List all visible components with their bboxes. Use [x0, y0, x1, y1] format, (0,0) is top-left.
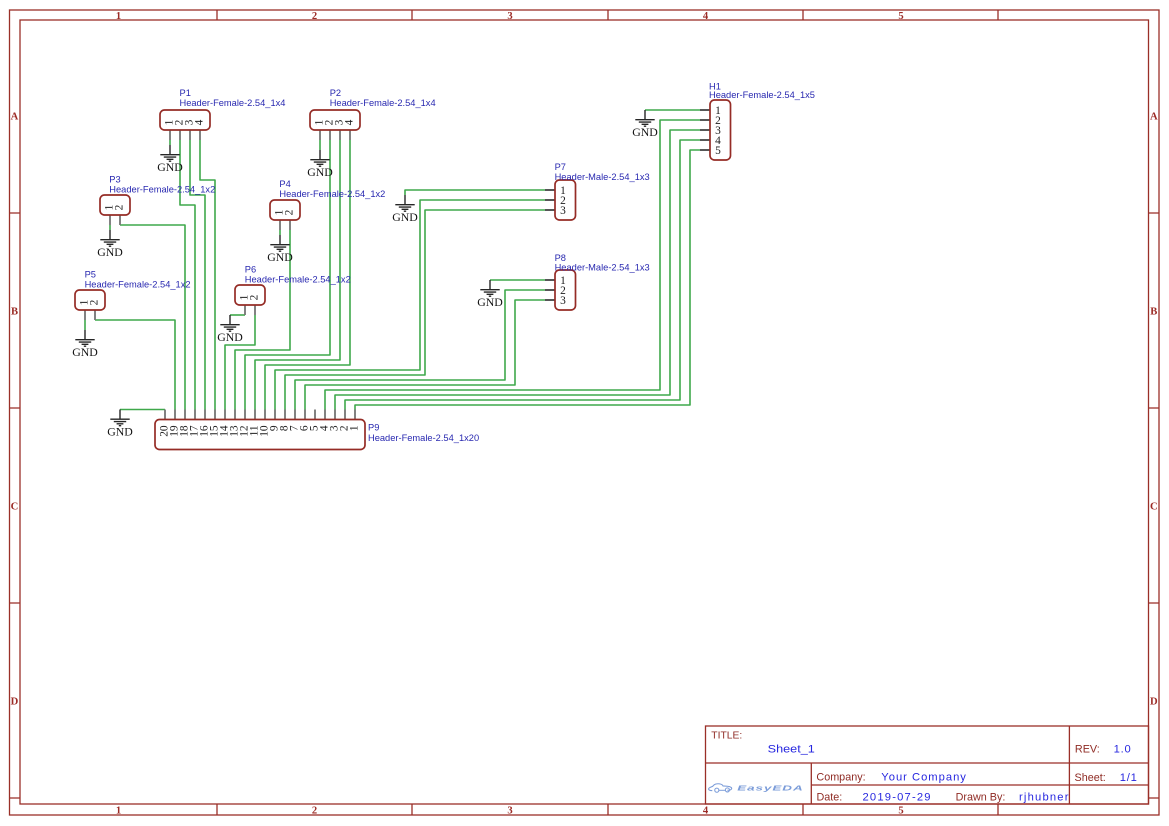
- frame row letters left: [11, 112, 19, 708]
- svg-text:4: 4: [194, 119, 206, 125]
- svg-text:2: 2: [312, 11, 317, 22]
- P5 pin numbers: [79, 299, 101, 305]
- svg-text:1.0: 1.0: [1114, 743, 1132, 755]
- wire P8 pin2 to P9 pin7: [295, 290, 545, 410]
- svg-text:GND: GND: [72, 347, 98, 359]
- title block REV: [1075, 743, 1132, 755]
- svg-text:GND: GND: [217, 332, 243, 344]
- svg-text:P7: P7: [555, 162, 566, 172]
- P6 pin stubs: [245, 305, 255, 315]
- ground GND at P1 pin1: [157, 145, 183, 174]
- connector P5 Header-Female-2.54_1x2: [75, 269, 191, 320]
- svg-text:Header-Female-2.54_1x20: Header-Female-2.54_1x20: [368, 433, 479, 443]
- P9 pin numbers: [159, 425, 361, 437]
- svg-text:3: 3: [560, 295, 566, 307]
- svg-text:5: 5: [898, 11, 903, 22]
- svg-text:1/1: 1/1: [1120, 772, 1138, 784]
- wire P2 pin3 to P9 pin11: [255, 140, 340, 410]
- svg-text:P6: P6: [245, 264, 256, 274]
- connector P1 Header-Female-2.54_1x4: [160, 88, 285, 140]
- svg-text:P8: P8: [555, 253, 566, 263]
- svg-text:D: D: [1150, 697, 1158, 708]
- P5 body: [75, 290, 105, 310]
- P4 pin numbers: [274, 209, 296, 215]
- svg-text:2: 2: [249, 294, 261, 300]
- P6 pin numbers: [239, 294, 261, 300]
- svg-text:A: A: [1150, 112, 1158, 123]
- svg-text:5: 5: [715, 145, 721, 157]
- connector P6 Header-Female-2.54_1x2: [235, 264, 351, 315]
- frame row letters right: [1150, 112, 1158, 708]
- P7 body: [555, 180, 576, 220]
- svg-text:Header-Female-2.54_1x4: Header-Female-2.54_1x4: [180, 98, 286, 108]
- connector P7 Header-Male-2.54_1x3: [545, 162, 650, 220]
- svg-text:P2: P2: [330, 88, 341, 98]
- H1 pin stubs: [700, 110, 710, 150]
- P4 pin stubs: [280, 220, 290, 230]
- wire P3 pin1 to GND: [109, 225, 111, 230]
- svg-text:2: 2: [114, 204, 126, 210]
- wire P5 pin1 to GND: [84, 320, 86, 330]
- wire P6 pin1 to GND: [230, 314, 245, 316]
- title block: [706, 726, 1149, 804]
- frame row ticks: [10, 213, 1160, 798]
- svg-text:Header-Female-2.54_1x2: Header-Female-2.54_1x2: [109, 185, 215, 195]
- wire P8 pin3 to P9 pin6: [305, 300, 545, 410]
- svg-text:1: 1: [116, 806, 121, 817]
- P3 pin stubs: [110, 215, 120, 225]
- svg-text:GND: GND: [267, 252, 293, 264]
- wire P6 pin2 to P9 pin14: [225, 315, 255, 410]
- connector P9 Header-Female-2.54_1x20: [155, 410, 479, 450]
- wire H1 pin1 to GND: [645, 109, 700, 111]
- title block Date: [817, 791, 1070, 803]
- wire P3 pin2 to P9 pin18: [120, 225, 185, 410]
- frame column ticks: [217, 10, 998, 815]
- wire P1 pin4 to P9 pin15: [200, 140, 215, 410]
- svg-text:P4: P4: [279, 179, 290, 189]
- svg-text:Your Company: Your Company: [881, 772, 967, 784]
- svg-text:2: 2: [312, 806, 317, 817]
- wire P7 pin2 to P9 pin9: [275, 200, 545, 410]
- svg-text:3: 3: [507, 806, 512, 817]
- P2 body: [310, 110, 360, 130]
- svg-text:Header-Female-2.54_1x2: Header-Female-2.54_1x2: [85, 279, 191, 289]
- wire P4 pin1 to GND: [279, 230, 281, 235]
- title block Company: [816, 772, 966, 784]
- P7 pin numbers: [560, 185, 566, 217]
- svg-text:Company:: Company:: [816, 772, 865, 784]
- wire P8 pin1 to GND: [490, 279, 545, 281]
- P8 body: [555, 270, 576, 310]
- wire P4 pin2 to P9 pin13: [235, 230, 290, 410]
- P8 pin numbers: [560, 275, 566, 307]
- svg-text:Header-Female-2.54_1x5: Header-Female-2.54_1x5: [709, 90, 815, 100]
- svg-text:C: C: [11, 502, 19, 513]
- svg-text:2019-07-29: 2019-07-29: [863, 791, 932, 803]
- P3 pin numbers: [104, 204, 126, 210]
- wire P2 pin1 to GND: [319, 140, 321, 150]
- ground GND at H1 pin1: [632, 110, 658, 139]
- svg-text:GND: GND: [97, 247, 123, 259]
- svg-text:A: A: [11, 112, 19, 123]
- P3 body: [100, 195, 130, 215]
- svg-text:EasyEDA: EasyEDA: [737, 785, 803, 793]
- title block TITLE: label: [711, 731, 742, 742]
- EasyEDA logo: [709, 784, 804, 793]
- H1 pin numbers: [715, 105, 721, 157]
- H1 body: [710, 100, 731, 160]
- wire P7 pin3 to P9 pin8: [285, 210, 545, 410]
- wire P2 pin4 to P9 pin10: [265, 140, 350, 410]
- svg-text:4: 4: [344, 119, 356, 125]
- svg-text:GND: GND: [307, 167, 333, 179]
- svg-text:GND: GND: [157, 162, 183, 174]
- svg-text:Header-Female-2.54_1x4: Header-Female-2.54_1x4: [330, 98, 436, 108]
- frame column numbers bottom: [116, 806, 904, 817]
- P6 body: [235, 285, 265, 305]
- wire H1 pin3 to P9 pin3: [335, 130, 700, 410]
- svg-text:4: 4: [703, 11, 709, 22]
- wire P1 pin1 to GND: [169, 140, 171, 145]
- svg-text:rjhubner: rjhubner: [1019, 791, 1070, 803]
- connector P8 Header-Male-2.54_1x3: [545, 253, 650, 310]
- wire P1 pin2 to P9 pin17: [180, 140, 195, 410]
- wire H1 pin2 to P9 pin4: [325, 120, 700, 410]
- svg-text:Sheet_1: Sheet_1: [768, 742, 815, 755]
- svg-text:P3: P3: [109, 175, 120, 185]
- P5 pin stubs: [85, 310, 95, 320]
- ground GND at P7 pin1: [392, 195, 418, 224]
- title block Sheet: [1075, 772, 1138, 784]
- ground GND at P9 pin20: [107, 410, 133, 439]
- P9 pin stubs: [165, 410, 355, 420]
- P9 body: [155, 420, 365, 450]
- svg-text:GND: GND: [477, 297, 503, 309]
- P1 body: [160, 110, 210, 130]
- title block sheet name: [768, 742, 815, 755]
- svg-text:GND: GND: [632, 127, 658, 139]
- svg-text:Header-Male-2.54_1x3: Header-Male-2.54_1x3: [555, 263, 650, 273]
- svg-text:1: 1: [349, 425, 361, 431]
- connector P3 Header-Female-2.54_1x2: [100, 175, 215, 226]
- svg-text:B: B: [11, 307, 18, 318]
- P7 pin stubs: [545, 190, 555, 210]
- svg-text:D: D: [11, 697, 19, 708]
- ground GND at P8 pin1: [477, 280, 503, 309]
- P2 pin stubs: [320, 130, 350, 140]
- wire H1 pin5 to P9 pin1: [355, 150, 700, 410]
- svg-text:Header-Female-2.54_1x2: Header-Female-2.54_1x2: [279, 189, 385, 199]
- P2 pin numbers: [314, 119, 356, 125]
- ground GND at P5 pin1: [72, 330, 98, 359]
- wire P9 pin20 to GND: [120, 409, 165, 411]
- wire P2 pin2 to P9 pin12: [245, 140, 330, 410]
- svg-text:P9: P9: [368, 423, 379, 433]
- wire P7 pin1 to GND: [405, 190, 545, 195]
- svg-text:B: B: [1150, 307, 1157, 318]
- svg-text:TITLE:: TITLE:: [711, 731, 742, 742]
- svg-text:3: 3: [560, 205, 566, 217]
- svg-text:P1: P1: [180, 88, 191, 98]
- svg-text:Header-Female-2.54_1x2: Header-Female-2.54_1x2: [245, 274, 351, 284]
- svg-text:P5: P5: [85, 269, 96, 279]
- ground GND at P6 pin1: [217, 315, 243, 344]
- svg-text:REV:: REV:: [1075, 743, 1100, 755]
- connector P2 Header-Female-2.54_1x4: [310, 88, 436, 140]
- P8 pin stubs: [545, 280, 555, 300]
- svg-text:Sheet:: Sheet:: [1075, 772, 1106, 784]
- svg-text:3: 3: [507, 11, 512, 22]
- frame column numbers top: [116, 11, 904, 22]
- wire P1 pin3 to P9 pin16: [190, 140, 205, 410]
- svg-text:Header-Male-2.54_1x3: Header-Male-2.54_1x3: [555, 172, 650, 182]
- svg-text:Drawn By:: Drawn By:: [956, 792, 1006, 804]
- svg-text:GND: GND: [107, 426, 133, 438]
- P4 body: [270, 200, 300, 220]
- svg-text:4: 4: [703, 806, 709, 817]
- svg-text:GND: GND: [392, 212, 418, 224]
- P1 pin stubs: [170, 130, 200, 140]
- P1 pin numbers: [164, 119, 206, 125]
- ground GND at P2 pin1: [307, 150, 333, 179]
- svg-text:5: 5: [898, 806, 903, 817]
- svg-text:Date:: Date:: [817, 792, 843, 804]
- svg-text:C: C: [1150, 502, 1158, 513]
- svg-text:1: 1: [116, 11, 121, 22]
- svg-text:2: 2: [284, 209, 296, 215]
- ground GND at P4 pin1: [267, 235, 293, 264]
- connector H1 Header-Female-2.54_1x5: [700, 81, 815, 160]
- connector P4 Header-Female-2.54_1x2: [270, 179, 385, 230]
- wire H1 pin4 to P9 pin2: [345, 140, 700, 410]
- svg-text:2: 2: [89, 299, 101, 305]
- wire P5 pin2 to P9 pin19: [95, 320, 175, 410]
- ground GND at P3 pin1: [97, 230, 123, 259]
